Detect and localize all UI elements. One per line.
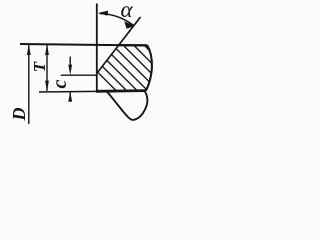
T arrow down bbox=[45, 81, 49, 92]
top surface line + left extension bbox=[20, 44, 147, 45]
bottom extension line to the left bbox=[39, 90, 96, 93]
c top reference line (chamfer root) bbox=[61, 74, 97, 76]
label alpha bbox=[117, 0, 137, 20]
T arrow up bbox=[45, 44, 49, 55]
visible rounded corner below section bbox=[107, 91, 148, 120]
c upper arrow (points down to chamfer-root line) bbox=[69, 57, 71, 71]
part left face + upward extension for angle bbox=[96, 4, 98, 92]
label T bbox=[30, 57, 50, 77]
label c bbox=[50, 74, 70, 94]
part top edge (thicker) bbox=[117, 44, 147, 46]
part right convex edge bbox=[146, 45, 152, 90]
arc arrowhead left (points to vertical line) bbox=[98, 11, 108, 16]
arc arrowhead right (points to chamfer line) bbox=[124, 21, 134, 29]
hatch (section lines) bbox=[16, 0, 206, 96]
D dimension line bbox=[28, 45, 30, 125]
D arrow up bbox=[27, 44, 31, 55]
alpha angle arc bbox=[100, 14, 134, 26]
T dimension line bbox=[46, 45, 48, 92]
chamfer line (extended) bbox=[98, 17, 141, 73]
bottom cut edge (thick) bbox=[96, 89, 146, 93]
c lower arrow (points up to bottom line) bbox=[69, 92, 71, 102]
label D bbox=[9, 104, 29, 124]
